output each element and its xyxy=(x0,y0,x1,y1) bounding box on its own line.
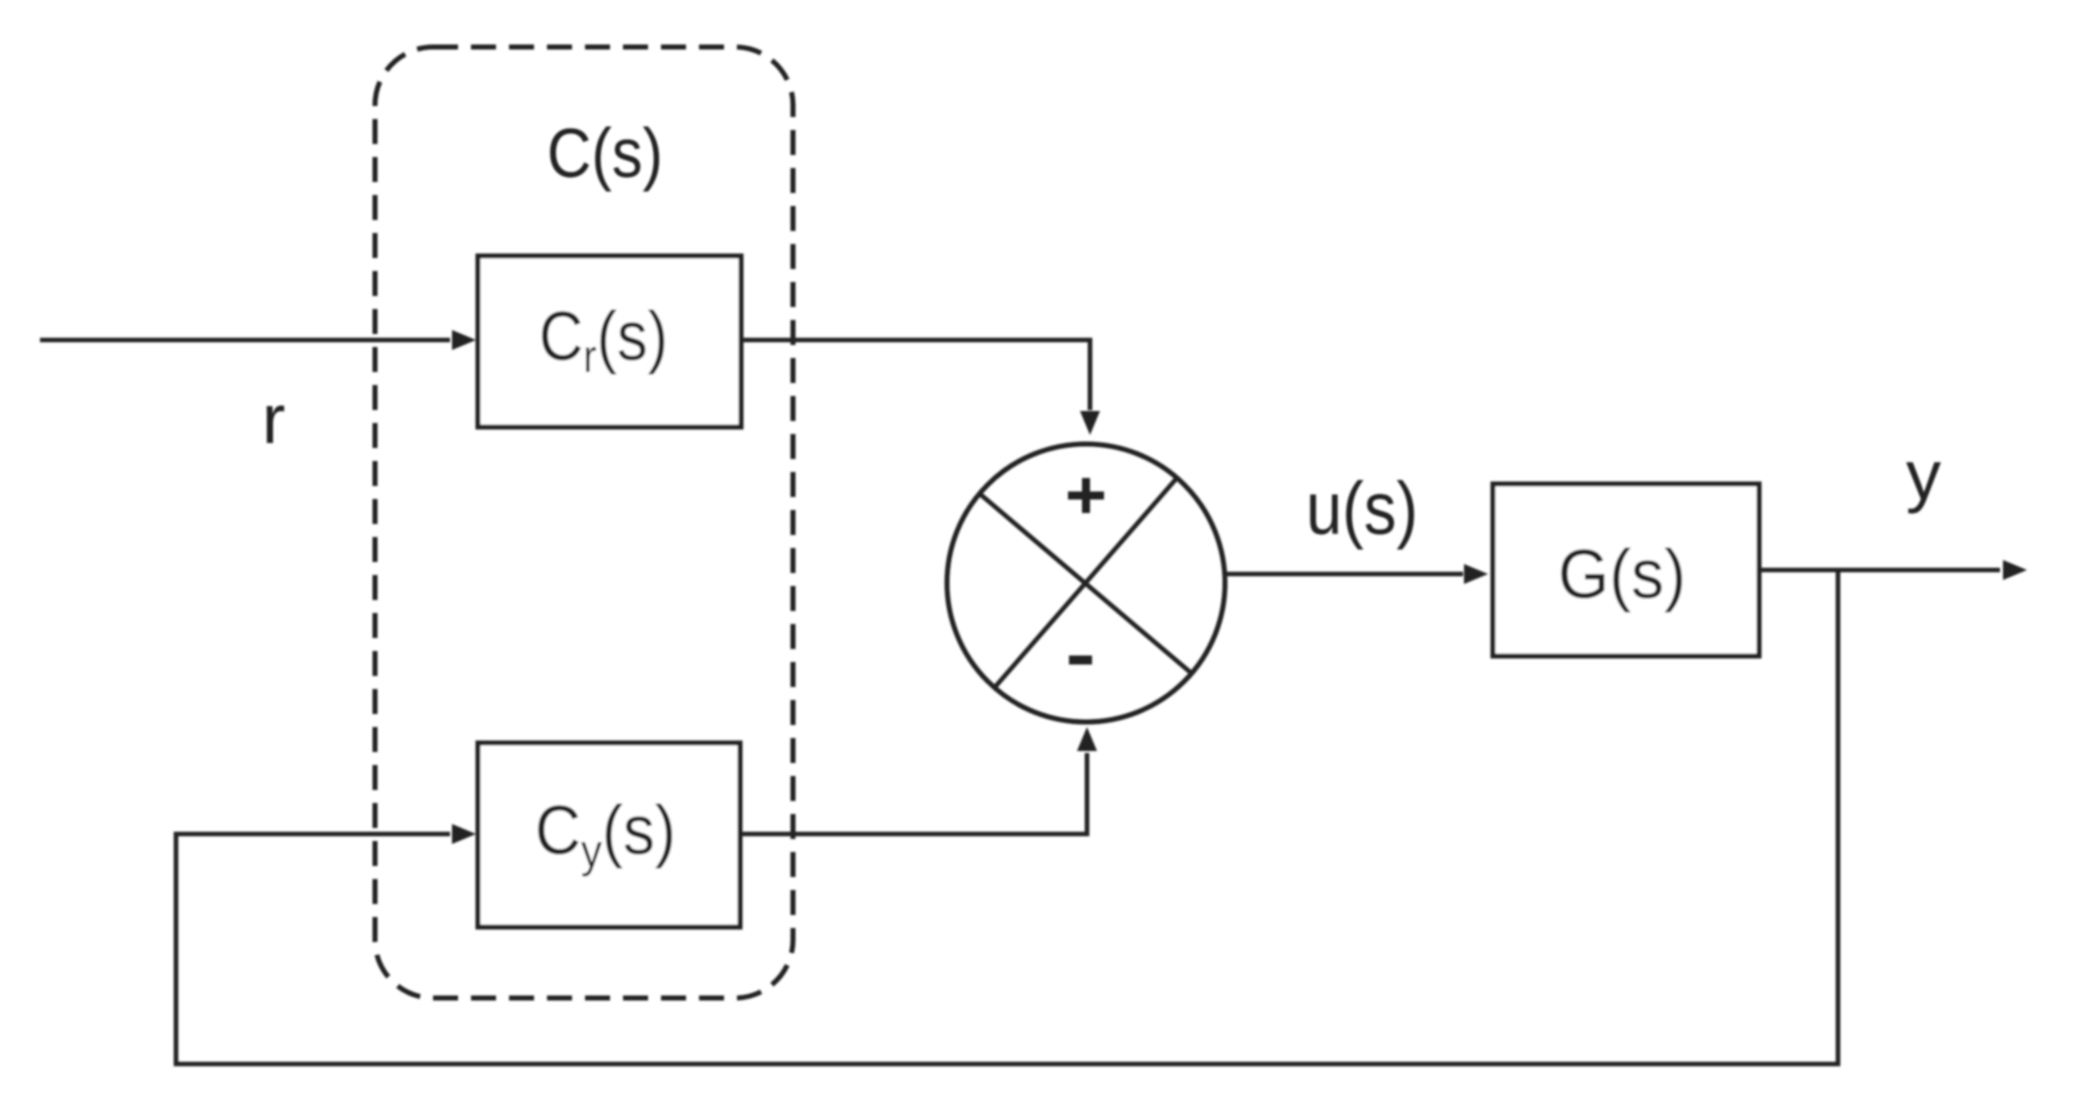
svg-text:y: y xyxy=(1906,436,1941,514)
svg-text:r: r xyxy=(262,380,285,458)
svg-text:u(s): u(s) xyxy=(1306,467,1418,550)
svg-text:C(s): C(s) xyxy=(547,114,663,192)
svg-text:G(s): G(s) xyxy=(1558,535,1686,613)
svg-text:Cy(s): Cy(s) xyxy=(535,791,676,877)
svg-text:Cr(s): Cr(s) xyxy=(539,297,668,382)
